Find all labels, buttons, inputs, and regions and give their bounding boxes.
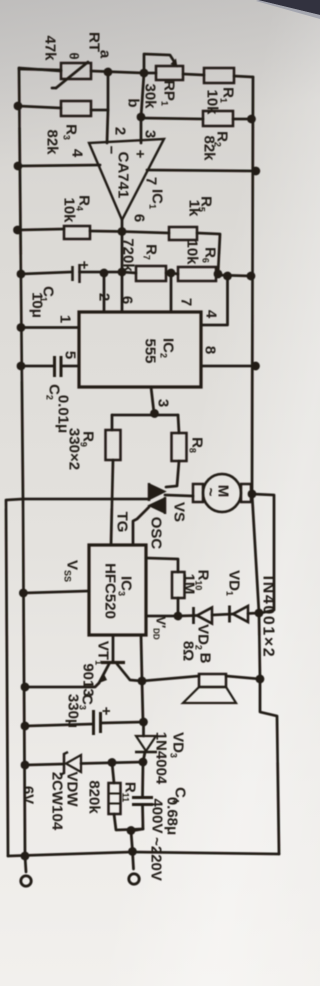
svg-text:B: B [197, 653, 214, 664]
capacitor C1 plate A [71, 266, 74, 281]
svg-text:R1: R1 [218, 87, 236, 103]
svg-text:R6: R6 [200, 247, 218, 263]
junction rail pin4 [14, 162, 23, 171]
wire bottom edge bus [8, 852, 279, 856]
resistor R4 [64, 226, 90, 239]
svg-text:IC3: IC3 [116, 576, 134, 596]
speaker B driver [199, 674, 226, 687]
wire bottom rail (left edge of photo) [19, 68, 23, 499]
wire pin7 node to R6 [171, 273, 178, 274]
wire R5 to R6 right node [197, 233, 220, 274]
resistor R5 [169, 227, 197, 240]
wire R1 to top rail corner [234, 76, 253, 77]
junction VD1 top rail [255, 609, 264, 618]
junction collector speaker node [138, 677, 147, 686]
wire IC3 Vss to rail [23, 591, 89, 593]
svg-text:2CW104: 2CW104 [49, 772, 66, 831]
svg-text:7: 7 [143, 177, 160, 185]
wire R4 to output node [90, 230, 122, 233]
wire top bridge supply [19, 68, 61, 71]
resistor R7 [136, 266, 166, 281]
svg-text:θ: θ [66, 52, 81, 59]
junction rail R3 [14, 102, 23, 111]
motor M left brush [193, 484, 203, 502]
node b junction on top wire [140, 69, 149, 78]
thermistor RT [61, 63, 91, 79]
svg-text:1N4004: 1N4004 [153, 732, 170, 785]
svg-text:5: 5 [62, 351, 79, 359]
transistor VT1 collector lead [117, 664, 142, 681]
thermistor RT strike foot [52, 87, 56, 90]
junction rail zener [21, 761, 30, 770]
wire IC3 OSC to R10 [146, 558, 178, 572]
svg-text:IC2: IC2 [158, 338, 176, 358]
svg-text:a: a [97, 50, 114, 59]
junction rail Vss [19, 589, 28, 598]
wire R8 to triac [166, 461, 179, 487]
capacitor C2 plate A [53, 356, 56, 377]
svg-text:R8: R8 [187, 437, 205, 453]
svg-text:~: ~ [202, 488, 219, 497]
wire node b to R2 [141, 118, 203, 119]
svg-text:10μ: 10μ [29, 292, 46, 318]
svg-text:IC1: IC1 [147, 189, 165, 209]
svg-text:1: 1 [57, 315, 74, 323]
svg-text:VDW: VDW [64, 772, 81, 808]
wire C2 to 555 pin5 [61, 365, 79, 368]
triac VS triangle B [149, 498, 165, 513]
wire timing node to R7 [122, 272, 136, 273]
wire RT lead left [19, 69, 61, 70]
wire R2 to top rail [233, 118, 252, 121]
svg-text:9013: 9013 [80, 663, 97, 696]
wire triac to motor [165, 495, 193, 496]
resistor R6 [178, 267, 216, 281]
capacitor C3 plate B [99, 712, 102, 733]
svg-text:2: 2 [96, 293, 113, 301]
wire 555 pin 4 tie [201, 276, 228, 325]
capacitor C1 plate B [78, 264, 81, 283]
wire VD1 to rail [248, 612, 259, 615]
wire op-amp pin 7 to top rail [147, 170, 256, 171]
junction R10 VDD diode [174, 612, 183, 621]
resistor R10 [172, 572, 185, 598]
IC U3 HFC520 box [89, 545, 146, 635]
svg-text:2: 2 [112, 127, 129, 135]
wire rail to C2 [21, 365, 55, 368]
svg-text:330×2: 330×2 [66, 428, 83, 470]
wire node b branch [141, 73, 144, 143]
resistor R3 [61, 101, 91, 116]
wire rail to R3 [18, 106, 61, 108]
svg-text:R7: R7 [141, 244, 159, 260]
svg-text:b: b [125, 98, 142, 107]
svg-text:82k: 82k [201, 135, 218, 161]
capacitor C4 plate B [132, 803, 153, 806]
triac VS triangle A [149, 484, 165, 500]
svg-text:820k: 820k [86, 780, 103, 814]
wire speaker to supply [226, 676, 260, 679]
svg-text:3: 3 [142, 130, 159, 138]
svg-text:4: 4 [69, 149, 86, 158]
junction output R4 R5 [118, 227, 127, 236]
junction left terminal [21, 852, 30, 861]
wire tee right to R8 [178, 415, 179, 433]
svg-text:VS: VS [171, 502, 188, 522]
svg-text:4: 4 [203, 310, 220, 319]
wire pin2 node to output node [104, 271, 122, 274]
wire IC3 to VT1 base [112, 635, 115, 661]
wire VD3 junction to C4 [141, 762, 144, 797]
IC U2 555 timer box [79, 312, 201, 387]
wire motor to VD1 branch [252, 494, 274, 613]
svg-text:6V: 6V [20, 786, 37, 804]
potentiometer RP1 wiper arrowhead [171, 59, 178, 68]
capacitor C2 plate B [60, 356, 63, 377]
triac VS bar A [148, 483, 151, 501]
svg-text:TG: TG [114, 512, 131, 533]
wire rail to zener [25, 764, 64, 765]
wire R9 to IC3 TG pin [111, 460, 113, 545]
wire VD2 to VD1 [212, 614, 233, 615]
wire 555 pin 8 to top rail [201, 365, 256, 368]
transistor Q1 VT1 base bar [101, 661, 125, 664]
potentiometer RP1 wiper link [144, 54, 175, 73]
svg-text:720k: 720k [120, 238, 137, 272]
junction C3 node [139, 718, 148, 727]
junction rail C3 [21, 722, 30, 731]
wire R7 to pin7 node [166, 272, 171, 275]
capacitor C4 plate A [132, 796, 153, 799]
potentiometer RP1 [156, 66, 183, 80]
wire R3 to pin2 node [91, 109, 108, 112]
dark background at paper corner [0, 0, 320, 30]
diode VD2 triangle [197, 608, 212, 624]
wire 555 pin3 out [151, 387, 154, 413]
junction R2 top rail [247, 115, 256, 124]
diode VD3 bar [135, 751, 157, 754]
svg-text:+: + [98, 707, 115, 716]
svg-text:+: + [132, 150, 149, 159]
wire collector node down [142, 681, 143, 722]
junction pin7 top rail [251, 167, 260, 176]
svg-text:8Ω: 8Ω [180, 641, 197, 661]
wire to right mains terminal [133, 852, 134, 870]
wire collector node to speaker [142, 676, 199, 681]
resistor R11 inner line A [109, 793, 121, 795]
wire op-amp output [121, 220, 124, 312]
motor M right brush [241, 484, 251, 502]
wire pin3 tee [112, 414, 178, 417]
diode VD1 triangle [233, 606, 248, 622]
wire VD2 lead [178, 614, 196, 617]
wire tee left to R9 [111, 415, 114, 430]
svg-text:7: 7 [178, 298, 195, 306]
op-amp U1 CA741 triangle [89, 139, 164, 220]
svg-text:CA741: CA741 [115, 152, 132, 199]
junction R6 top rail [247, 272, 256, 281]
junction pin8 top rail [251, 362, 260, 371]
svg-text:47k: 47k [42, 35, 59, 61]
wire to left mains terminal [25, 856, 26, 872]
svg-text:VD1: VD1 [224, 570, 242, 596]
wire rail to C1 [21, 272, 71, 274]
junction VD3 R11 C4 [139, 758, 148, 767]
motor M body circle [203, 474, 241, 512]
svg-text:3: 3 [155, 399, 172, 407]
junction rail pin1 [17, 323, 26, 332]
svg-text:10k: 10k [184, 239, 201, 265]
wire rail to R4 [18, 229, 65, 230]
wire R6 to top rail [216, 275, 251, 276]
wire bottom rail lower bus [23, 499, 25, 856]
junction output to timing node [118, 268, 127, 277]
wire C3 to rail [25, 724, 94, 726]
svg-text:82k: 82k [44, 129, 61, 155]
wire VDD node to IC3 [146, 615, 178, 618]
svg-text:IN4001×2: IN4001×2 [260, 576, 277, 659]
wire output node to R5 [122, 232, 169, 234]
svg-text:RP1: RP1 [159, 80, 177, 106]
svg-text:~220V: ~220V [148, 837, 165, 881]
svg-text:R3: R3 [61, 124, 79, 140]
triac VS bar B [164, 497, 167, 514]
svg-text:1M: 1M [181, 574, 198, 595]
svg-text:555: 555 [142, 338, 159, 363]
svg-text:HFC520: HFC520 [102, 563, 119, 619]
wire zener to VD3 junction [81, 762, 143, 764]
junction pin4 tie [223, 272, 232, 281]
zener VDW bar [60, 752, 68, 775]
junction R11 C4 join [127, 826, 136, 835]
resistor R8 [172, 433, 187, 461]
node a junction [104, 68, 113, 77]
wire VD3 to junction [143, 752, 145, 762]
svg-text:+: + [76, 261, 93, 270]
svg-text:1k: 1k [186, 200, 203, 217]
zener VDW triangle [66, 755, 81, 772]
resistor R2 [203, 111, 233, 126]
wire zener bus to R11 [112, 763, 114, 784]
junction motor top rail [248, 490, 257, 499]
wire triac gate to IC3 [133, 507, 149, 545]
wire C1 to 555 pin2 drop [80, 272, 105, 312]
junction rail C2 [17, 362, 26, 371]
wire VDD bus down to VD3 [142, 722, 145, 736]
resistor R9 [106, 430, 121, 460]
wire node b to RP1 [144, 72, 156, 75]
junction rail R4 [13, 226, 22, 235]
wire 555 pin 1 to rail [21, 326, 79, 329]
transistor VT1 emitter arrowhead [99, 674, 107, 683]
wire C3 to collector node [101, 722, 144, 723]
junction C1 pin2 drop [100, 269, 109, 278]
junction rail C1 [17, 270, 26, 279]
wire IC3 out pin down [141, 635, 142, 681]
junction speaker top rail [256, 675, 265, 684]
wire node a to pin2 branch [107, 72, 108, 143]
node b lower junction [137, 113, 146, 122]
wire bottom rail jog [6, 499, 23, 856]
svg-text:VSS: VSS [62, 560, 80, 582]
svg-text:8: 8 [202, 346, 219, 354]
transistor VT1 emitter lead [99, 664, 109, 683]
resistor R11 [109, 783, 121, 814]
junction rail emitter [21, 683, 30, 692]
svg-text:−: − [103, 146, 120, 155]
svg-text:10k: 10k [61, 197, 78, 223]
wire R10 to VDD node [177, 598, 180, 616]
wire rail to triac [23, 498, 149, 501]
junction R7 pin7 drop [167, 269, 176, 278]
svg-text:400V: 400V [149, 798, 166, 833]
terminal mains right [129, 874, 139, 884]
thermistor RT strike [56, 62, 88, 88]
diode VD1 bar [228, 606, 231, 623]
resistor R1 [204, 68, 234, 83]
svg-text:OSC: OSC [148, 517, 165, 550]
resistor R11 inner line B [109, 803, 121, 805]
svg-text:V′DD: V′DD [151, 616, 168, 640]
svg-text:6: 6 [119, 296, 136, 304]
svg-text:R11: R11 [120, 782, 138, 802]
svg-text:330μ: 330μ [65, 694, 82, 728]
speaker B cone [183, 687, 236, 703]
svg-text:6: 6 [131, 214, 148, 222]
wire R11 bottom [114, 814, 143, 830]
capacitor C3 plate A [92, 710, 95, 735]
wire top rail lower section [252, 494, 279, 854]
svg-text:VD3: VD3 [168, 732, 186, 758]
wire RT to node a [91, 71, 144, 73]
wire op-amp pin 4 to rail [18, 165, 100, 166]
wire 555 pin7 drop [170, 273, 173, 312]
diode VD3 triangle [136, 736, 156, 751]
terminal mains left [21, 876, 31, 886]
wire C4 to bottom bus [131, 805, 143, 852]
wire VT1 emitter to rail [25, 683, 99, 687]
junction pin3 split [150, 409, 159, 418]
junction bottom bus [128, 847, 137, 856]
junction R11 drop [108, 758, 117, 767]
diode VD2 bar [192, 607, 195, 624]
wire top rail [252, 77, 253, 494]
junction R6 R5 node [214, 270, 223, 279]
svg-text:0.68μ: 0.68μ [164, 797, 181, 835]
wire RP1 to R1 [183, 74, 204, 75]
